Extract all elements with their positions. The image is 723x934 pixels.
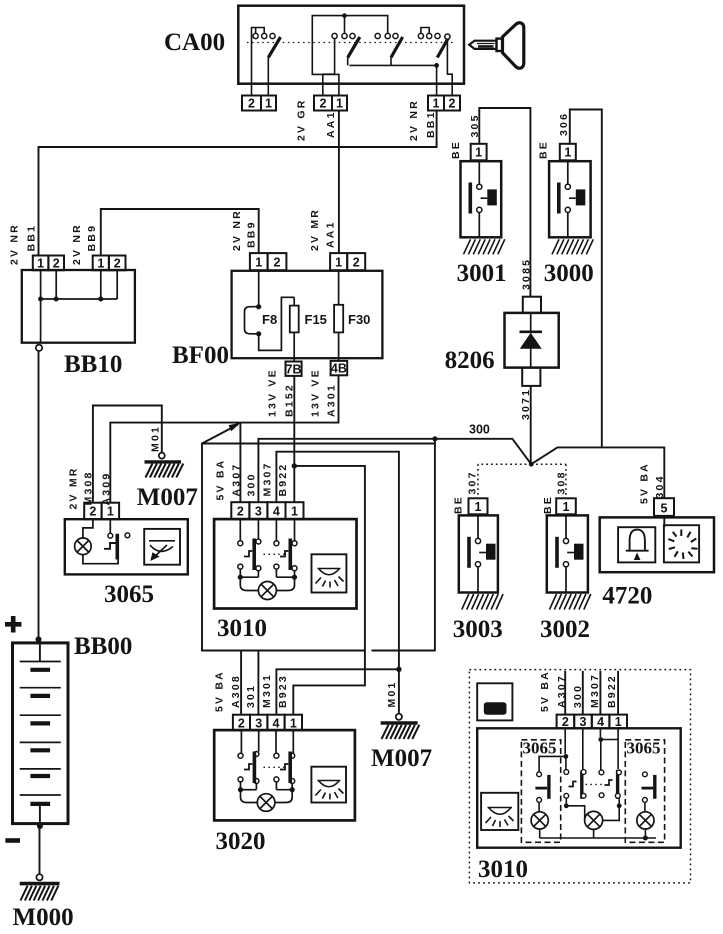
svg-text:BB10: BB10: [64, 351, 122, 378]
svg-text:2: 2: [238, 716, 245, 730]
svg-text:1: 1: [265, 97, 272, 111]
svg-text:2V NR: 2V NR: [231, 209, 243, 251]
svg-text:3: 3: [255, 504, 262, 518]
svg-text:2V NR: 2V NR: [408, 99, 420, 141]
svg-text:4: 4: [273, 504, 280, 518]
svg-text:1: 1: [335, 255, 342, 269]
svg-text:3003: 3003: [453, 616, 503, 643]
svg-text:2: 2: [320, 97, 327, 111]
svg-text:1: 1: [97, 257, 104, 271]
svg-text:13V VE: 13V VE: [267, 368, 279, 417]
svg-text:3065: 3065: [627, 739, 661, 758]
svg-text:BB1: BB1: [425, 110, 437, 138]
svg-text:2: 2: [53, 257, 60, 271]
svg-text:2: 2: [353, 255, 360, 269]
svg-text:1: 1: [563, 500, 570, 514]
svg-text:BE: BE: [538, 140, 550, 159]
svg-text:M01: M01: [150, 425, 162, 452]
svg-text:2: 2: [237, 504, 244, 518]
svg-text:308: 308: [556, 470, 568, 494]
svg-text:BB1: BB1: [26, 224, 38, 252]
svg-text:A301: A301: [326, 383, 338, 417]
svg-text:5: 5: [661, 502, 668, 516]
svg-text:1: 1: [255, 255, 262, 269]
svg-text:2V MR: 2V MR: [309, 208, 321, 251]
svg-text:B922: B922: [606, 674, 618, 708]
svg-text:F30: F30: [348, 312, 370, 327]
svg-text:M307: M307: [589, 673, 601, 708]
svg-text:2V GR: 2V GR: [296, 98, 308, 141]
svg-text:B922: B922: [277, 463, 289, 497]
svg-text:B152: B152: [284, 383, 296, 417]
svg-text:M007: M007: [137, 484, 198, 511]
svg-text:7B: 7B: [286, 362, 302, 376]
svg-text:3000: 3000: [544, 260, 594, 287]
svg-text:2: 2: [274, 255, 281, 269]
svg-text:3010: 3010: [217, 615, 267, 642]
svg-text:BE: BE: [450, 140, 462, 159]
svg-text:4: 4: [273, 716, 280, 730]
svg-text:3085: 3085: [521, 258, 533, 290]
svg-text:2: 2: [562, 715, 569, 729]
svg-text:M000: M000: [13, 904, 74, 931]
svg-text:8206: 8206: [445, 347, 495, 374]
svg-text:4720: 4720: [602, 583, 652, 610]
svg-text:3020: 3020: [216, 828, 266, 855]
svg-text:F15: F15: [305, 312, 327, 327]
svg-text:AA1: AA1: [325, 220, 337, 248]
svg-text:A309: A309: [101, 472, 113, 506]
svg-text:A307: A307: [231, 463, 243, 497]
svg-text:1: 1: [291, 504, 298, 518]
svg-text:BB9: BB9: [86, 224, 98, 252]
svg-text:5V BA: 5V BA: [539, 670, 551, 712]
svg-text:3001: 3001: [457, 260, 507, 287]
svg-text:3065: 3065: [104, 581, 154, 608]
svg-text:1: 1: [433, 97, 440, 111]
svg-text:M308: M308: [83, 470, 95, 505]
svg-text:2: 2: [89, 505, 96, 519]
svg-text:300: 300: [572, 684, 584, 708]
svg-text:2: 2: [114, 257, 121, 271]
svg-text:M007: M007: [371, 745, 432, 772]
svg-text:304: 304: [654, 474, 666, 498]
svg-text:5V BA: 5V BA: [214, 670, 226, 712]
svg-text:A308: A308: [230, 674, 242, 708]
svg-text:307: 307: [467, 470, 479, 494]
svg-text:1: 1: [475, 146, 482, 160]
svg-text:BE: BE: [542, 495, 554, 514]
svg-text:M01: M01: [386, 680, 398, 707]
svg-text:AA1: AA1: [325, 110, 337, 138]
svg-text:1: 1: [290, 716, 297, 730]
svg-text:1: 1: [107, 505, 114, 519]
svg-text:4: 4: [597, 715, 604, 729]
svg-text:1: 1: [37, 257, 44, 271]
svg-text:301: 301: [245, 684, 257, 708]
svg-text:300: 300: [469, 423, 490, 437]
svg-text:305: 305: [469, 113, 481, 137]
svg-text:2V MR: 2V MR: [68, 466, 80, 509]
svg-text:5V BA: 5V BA: [639, 462, 651, 504]
svg-text:300: 300: [246, 472, 258, 496]
svg-text:A307: A307: [556, 674, 568, 708]
svg-text:B923: B923: [277, 674, 289, 708]
svg-text:CA00: CA00: [164, 29, 225, 56]
svg-text:1: 1: [615, 715, 622, 729]
svg-text:3071: 3071: [520, 388, 532, 420]
svg-text:5V BA: 5V BA: [215, 459, 227, 501]
svg-text:2V NR: 2V NR: [71, 223, 83, 265]
svg-text:306: 306: [558, 112, 570, 136]
svg-text:BF00: BF00: [172, 342, 229, 369]
svg-text:2V NR: 2V NR: [9, 223, 21, 265]
svg-text:1: 1: [336, 97, 343, 111]
svg-text:BE: BE: [453, 495, 465, 514]
svg-text:M301: M301: [261, 673, 273, 708]
svg-text:3002: 3002: [540, 616, 590, 643]
svg-text:2: 2: [248, 97, 255, 111]
svg-text:3065: 3065: [523, 739, 557, 758]
svg-text:1: 1: [475, 500, 482, 514]
svg-text:BB9: BB9: [246, 220, 258, 248]
svg-text:2: 2: [449, 97, 456, 111]
svg-text:F8: F8: [262, 312, 277, 327]
svg-text:4B: 4B: [331, 362, 347, 376]
svg-text:13V VE: 13V VE: [310, 368, 322, 417]
svg-text:3010: 3010: [478, 856, 528, 883]
svg-text:M307: M307: [262, 461, 274, 496]
svg-text:1: 1: [564, 146, 571, 160]
svg-text:3: 3: [580, 715, 587, 729]
svg-text:BB00: BB00: [74, 633, 132, 660]
svg-text:3: 3: [255, 716, 262, 730]
